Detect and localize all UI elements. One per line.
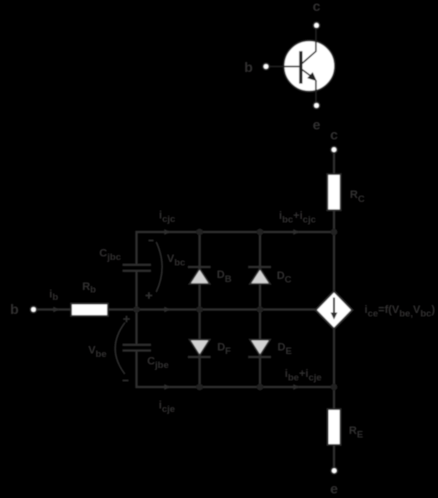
svg-text:c: c bbox=[330, 127, 338, 143]
svg-text:e: e bbox=[330, 481, 338, 497]
svg-text:e: e bbox=[313, 117, 321, 133]
svg-text:b: b bbox=[244, 59, 253, 75]
svg-text:c: c bbox=[313, 0, 321, 14]
svg-text:b: b bbox=[10, 301, 19, 317]
